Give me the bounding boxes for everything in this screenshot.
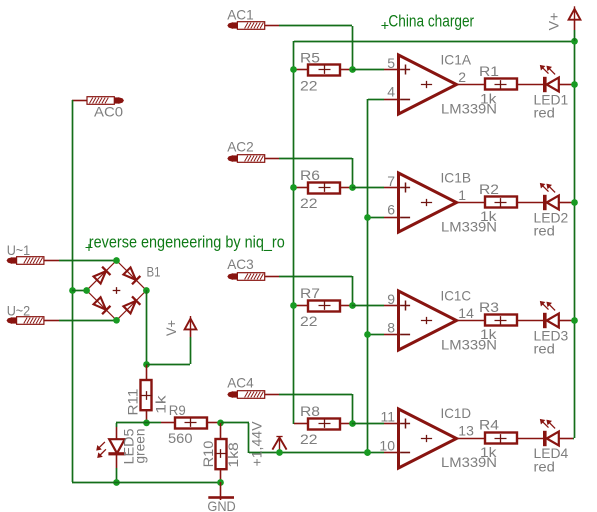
resistor R8 [308, 419, 340, 430]
svg-text:8: 8 [387, 319, 395, 335]
pin line minus input [384, 452, 398, 454]
pin line R11 top [146, 365, 148, 380]
pin line R9 right [207, 422, 221, 424]
LED LED3 [543, 313, 547, 328]
connector U~1 [7, 258, 12, 264]
pin line U~2 [44, 320, 59, 322]
junction left chain [290, 66, 297, 73]
ground GND [208, 496, 234, 499]
pin line LED5 top [116, 427, 118, 439]
junction bridge right [143, 287, 150, 294]
junction R10 bottom [217, 479, 224, 486]
wire to plus input [352, 305, 384, 307]
wire V+ tap [146, 364, 190, 366]
pin line R1 to LED1 [517, 84, 543, 86]
wire minus input [368, 99, 384, 101]
pin line LED3 to rail [559, 320, 573, 322]
pin line output to R4 [456, 438, 486, 440]
wire bottom rail [72, 482, 221, 484]
pin line AC2 [265, 158, 279, 160]
junction R right [349, 420, 356, 427]
wire R11 junction to R9 [146, 422, 161, 424]
LED LED5 [109, 439, 125, 453]
svg-text:R1: R1 [479, 63, 499, 79]
pin line AC0 [72, 100, 87, 102]
junction minus chain bottom [364, 449, 371, 456]
pin line plus input [384, 69, 398, 71]
pin line R8 right [340, 423, 352, 425]
svg-text:1k8: 1k8 [225, 442, 241, 468]
connector AC1 [228, 23, 233, 29]
wire minus input [368, 217, 384, 219]
pin line AC4 [265, 394, 279, 396]
svg-text:AC1: AC1 [227, 6, 254, 22]
svg-text:U~1: U~1 [7, 242, 31, 258]
op-amp IC1B [399, 173, 457, 232]
junction bridge left [83, 287, 90, 294]
junction LED5 bottom [113, 479, 120, 486]
pin line R7 left [294, 305, 308, 307]
op-amp IC1A [399, 55, 457, 114]
wire to plus input [352, 423, 384, 425]
pin line AC1 [265, 25, 279, 27]
pin line V+ top [574, 20, 576, 30]
resistor R2 [485, 197, 517, 208]
junction V+ tap [143, 361, 150, 368]
pin line minus input [384, 99, 398, 101]
svg-text:red: red [534, 341, 555, 357]
svg-text:red: red [534, 458, 555, 474]
svg-text:IC1B: IC1B [441, 169, 472, 185]
svg-text:R9: R9 [169, 402, 186, 418]
svg-text:22: 22 [300, 431, 318, 447]
svg-text:red: red [534, 105, 555, 121]
svg-text:R5: R5 [300, 49, 320, 65]
junction LED rail [571, 317, 578, 324]
LED LED1 [543, 77, 547, 92]
svg-text:560: 560 [168, 430, 193, 446]
svg-text:China charger: China charger [388, 12, 474, 30]
svg-text:V+: V+ [163, 320, 179, 336]
connector U~2 [7, 318, 12, 324]
junction R9/R10 [217, 420, 224, 427]
pin line minus input [384, 334, 398, 336]
diode B1 top-left [93, 267, 111, 285]
resistor R5 [308, 65, 340, 76]
svg-text:B1: B1 [147, 264, 161, 280]
pin line output to R2 [456, 202, 486, 204]
wire reference node [221, 422, 249, 424]
wire LED5 top [116, 422, 146, 424]
junction R right [349, 66, 356, 73]
wire left chain vertical [293, 41, 295, 424]
svg-text:+1,44V: +1,44V [249, 421, 265, 467]
junction minus chain [364, 331, 371, 338]
pin line R8 left [294, 423, 308, 425]
resistor R6 [308, 183, 340, 194]
diode B1 bottom-right [123, 296, 141, 314]
svg-text:GND: GND [207, 498, 235, 512]
junction minus chain [364, 214, 371, 221]
LED LED2 [543, 195, 547, 210]
wire bridge right down [146, 290, 148, 364]
resistor R9 [175, 418, 207, 429]
junction R11 bottom [143, 420, 150, 427]
note reverse engeneering by niq_ro [86, 244, 93, 251]
wire LED5 to bottom rail [116, 468, 118, 482]
svg-text:R3: R3 [479, 299, 499, 315]
svg-text:green: green [132, 429, 148, 464]
pin line GND [220, 482, 222, 500]
power V+ bridge [190, 316, 192, 330]
svg-text:1: 1 [458, 187, 466, 203]
junction bridge top [113, 257, 120, 264]
svg-text:R2: R2 [479, 181, 499, 197]
pin line plus input [384, 423, 398, 425]
pin line R6 left [294, 187, 308, 189]
pin line output to R3 [456, 320, 486, 322]
svg-text:U~2: U~2 [7, 302, 31, 318]
svg-text:22: 22 [300, 195, 318, 211]
svg-text:R6: R6 [300, 167, 320, 183]
junction LED rail [571, 199, 578, 206]
resistor R1 [485, 79, 517, 90]
junction LED rail [571, 81, 578, 88]
resistor R4 [485, 433, 517, 444]
wire minus chain vertical [367, 99, 369, 453]
wire right V+ rail vertical [574, 41, 576, 438]
svg-text:V+: V+ [546, 13, 562, 31]
pin line LED2 to rail [559, 202, 573, 204]
op-amp IC1C [399, 291, 457, 350]
pin line LED4 to rail [559, 438, 573, 440]
svg-text:13: 13 [458, 423, 474, 439]
pin line R7 right [340, 305, 352, 307]
wire to plus input [352, 69, 384, 71]
wire V+ rail top [294, 41, 574, 43]
pin line AC3 [265, 276, 279, 278]
wire U~2 to bridge [59, 320, 116, 322]
note China charger [381, 22, 388, 29]
svg-text:IC1A: IC1A [441, 52, 472, 68]
svg-text:IC1D: IC1D [441, 405, 472, 421]
svg-text:AC2: AC2 [227, 139, 254, 155]
power +1,44V supply arrow [279, 437, 281, 453]
pin line R10 top [220, 423, 222, 439]
resistor R10 [216, 439, 227, 469]
svg-text:10: 10 [379, 437, 395, 453]
wire V+ top to rail [574, 30, 576, 41]
svg-text:AC4: AC4 [227, 375, 254, 391]
pin line plus input [384, 305, 398, 307]
power V+ top right [574, 6, 576, 20]
wire minus input [368, 334, 384, 336]
svg-text:4: 4 [387, 84, 395, 100]
svg-text:R11: R11 [124, 388, 140, 415]
svg-text:red: red [534, 223, 555, 239]
svg-text:2: 2 [458, 69, 466, 85]
pin line LED5 bottom [116, 455, 118, 468]
junction +1,44V [276, 449, 283, 456]
wire U~1 to bridge [59, 260, 116, 262]
svg-text:reverse engeneering by niq_ro: reverse engeneering by niq_ro [89, 234, 285, 252]
junction R right [349, 184, 356, 191]
junction R right [349, 302, 356, 309]
junction left chain [290, 302, 297, 309]
svg-text:1k: 1k [153, 394, 169, 414]
wire AC1 to R junction [279, 25, 352, 27]
svg-text:AC3: AC3 [227, 256, 254, 272]
connector AC4 [228, 392, 233, 398]
connector AC0 [87, 97, 114, 105]
resistor R11 [141, 380, 152, 410]
resistor R7 [308, 301, 340, 312]
pin line U~1 [44, 260, 59, 262]
svg-text:6: 6 [387, 202, 395, 218]
svg-text:IC1C: IC1C [441, 287, 472, 303]
svg-text:AC0: AC0 [94, 104, 123, 120]
junction top rail / right rail [571, 38, 578, 45]
connector AC2 [228, 156, 233, 162]
svg-text:R4: R4 [479, 417, 499, 433]
svg-text:5: 5 [387, 55, 395, 71]
pin line R9 left [161, 422, 176, 424]
pin line output to R1 [456, 84, 486, 86]
svg-text:R10: R10 [200, 440, 216, 467]
pin line R6 right [340, 187, 352, 189]
pin line R3 to LED3 [517, 320, 543, 322]
pin line R4 to LED4 [517, 438, 543, 440]
pin line R2 to LED2 [517, 202, 543, 204]
diode B1 top-right [123, 267, 141, 285]
wire AC3 to R junction [279, 276, 352, 278]
pin line plus input [384, 187, 398, 189]
svg-text:14: 14 [458, 305, 474, 321]
wire minus input [368, 452, 384, 454]
svg-text:R7: R7 [300, 285, 320, 301]
pin line R5 left [294, 69, 308, 71]
wire AC2 to R junction [279, 158, 352, 160]
pin line LED1 to rail [559, 84, 573, 86]
pin line V+ bridge [190, 329, 192, 337]
pin line R5 right [340, 69, 352, 71]
wire to plus input [352, 187, 384, 189]
wire AC0 vertical [72, 100, 74, 482]
svg-text:1k: 1k [480, 208, 498, 224]
svg-text:7: 7 [387, 173, 395, 189]
svg-text:1k: 1k [480, 90, 498, 106]
junction left chain [290, 184, 297, 191]
pin line R10 bottom [220, 469, 222, 482]
diode B1 bottom-left [93, 297, 111, 315]
svg-text:9: 9 [387, 291, 395, 307]
bridge rectifier B1 outline [87, 261, 147, 321]
junction AC0 wire / bridge left [69, 287, 76, 294]
svg-text:22: 22 [300, 313, 318, 329]
connector AC3 [228, 274, 233, 280]
junction bridge bottom [113, 317, 120, 324]
svg-text:R8: R8 [300, 403, 320, 419]
junction minus chain [364, 449, 371, 456]
svg-text:1k: 1k [480, 326, 498, 342]
pin line minus input [384, 217, 398, 219]
svg-text:22: 22 [300, 77, 318, 93]
op-amp IC1D [399, 409, 457, 468]
wire to bridge left vertex [72, 290, 87, 292]
pin line R11 bottom [146, 410, 148, 423]
svg-text:11: 11 [380, 409, 395, 425]
wire AC4 to R junction [279, 394, 352, 396]
svg-text:1k: 1k [480, 444, 498, 460]
resistor R3 [485, 315, 517, 326]
LED LED4 [543, 431, 547, 446]
